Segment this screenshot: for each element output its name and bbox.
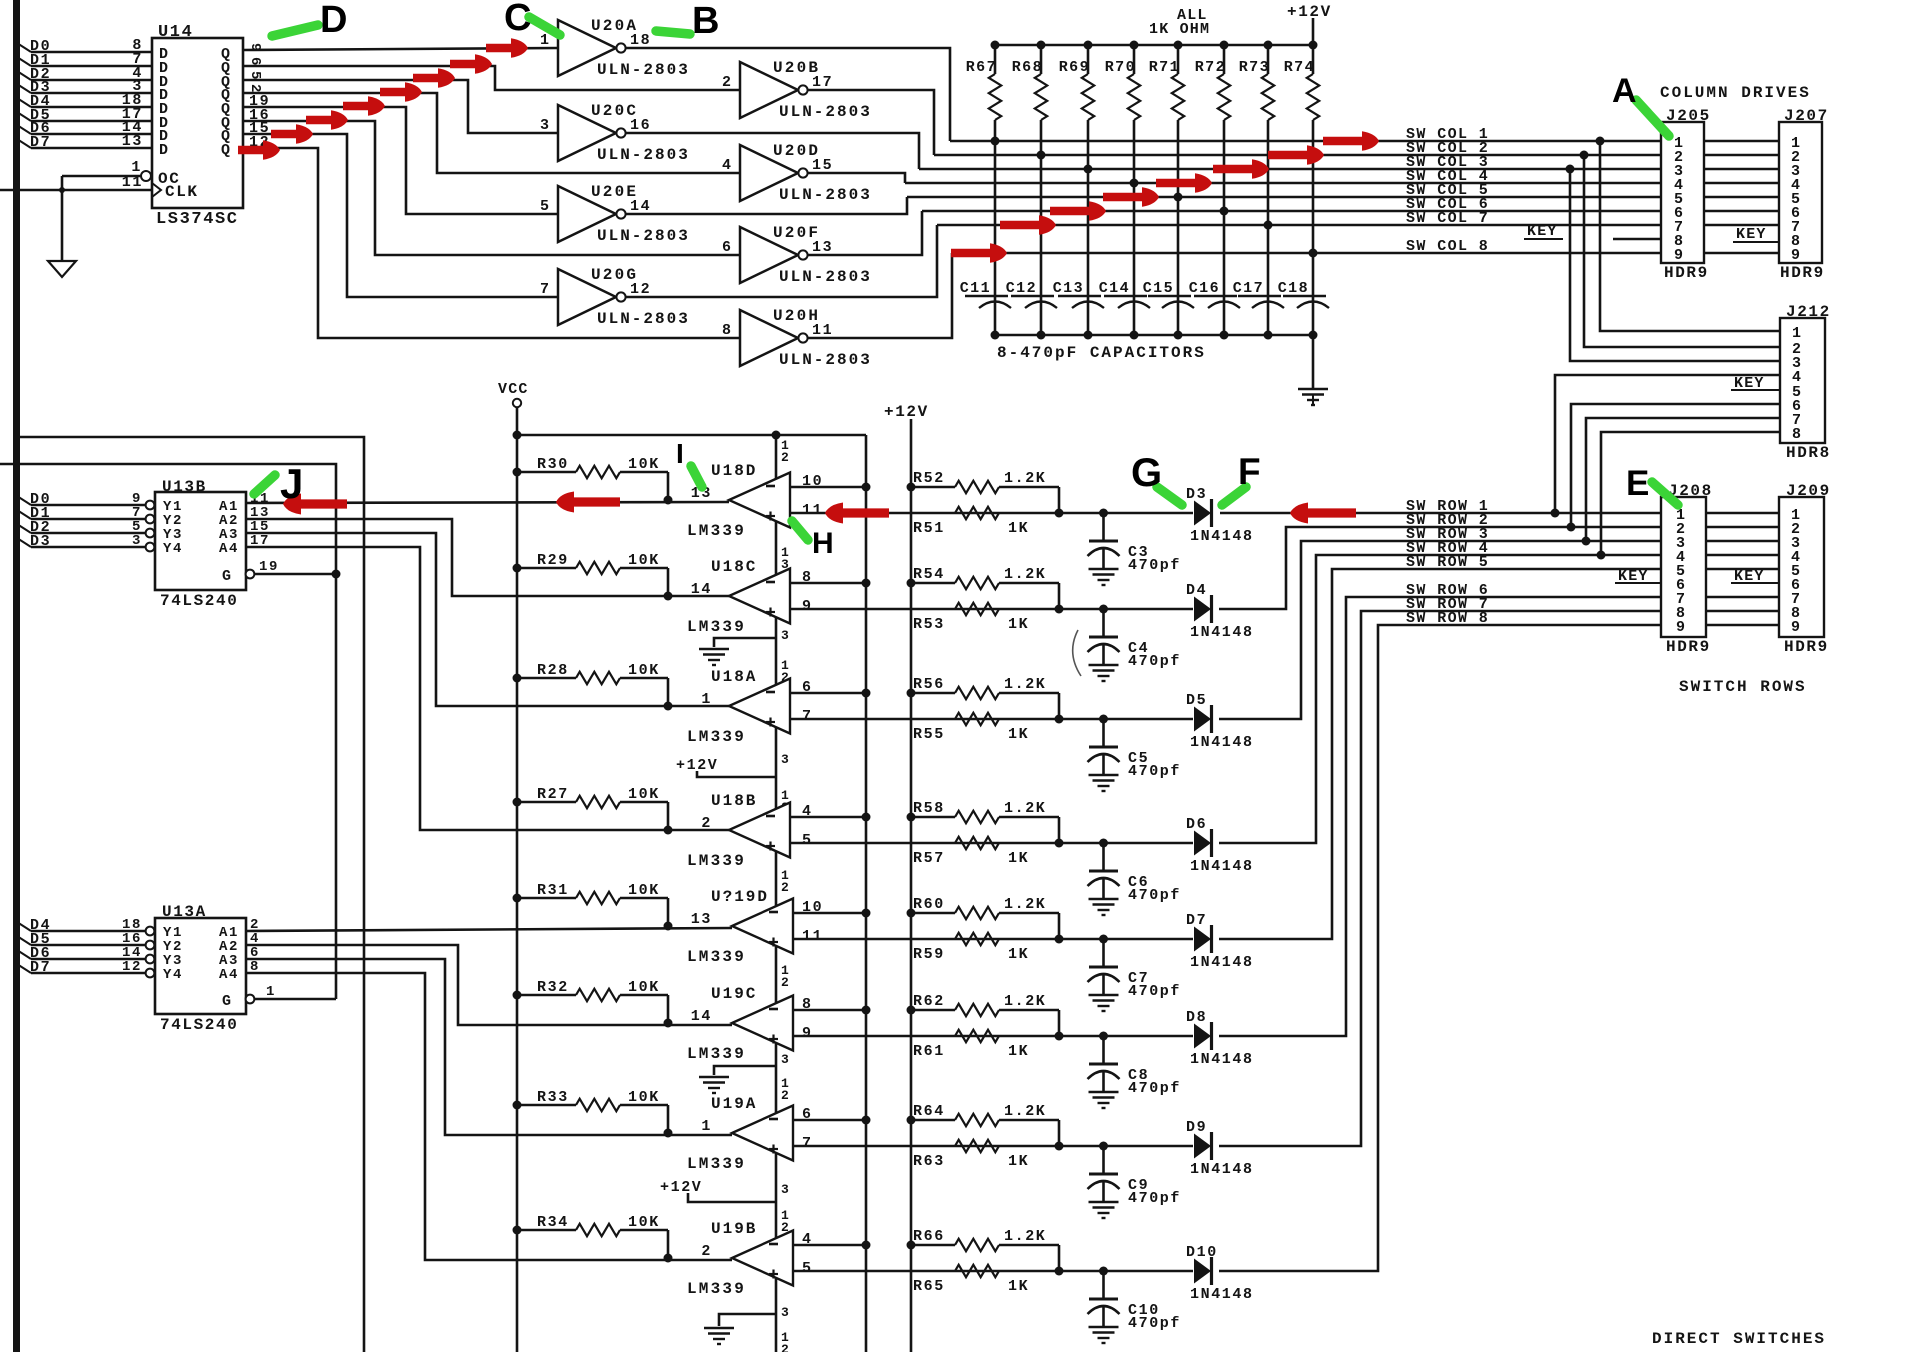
wire SW ROW 7 line with riser (1219, 611, 1661, 1146)
wire U14 Q7 to U20H input (243, 148, 740, 338)
svg-text:5: 5 (802, 1260, 813, 1277)
svg-text:U18C: U18C (711, 558, 757, 576)
svg-text:8: 8 (1792, 426, 1803, 443)
U19C minus sign (769, 1008, 778, 1011)
svg-text:470pf: 470pf (1128, 763, 1181, 780)
U18B plus sign (766, 845, 775, 847)
svg-text:D3: D3 (30, 533, 51, 550)
buffer U20B (ULN-2803) (740, 62, 798, 118)
svg-text:R61: R61 (913, 1043, 945, 1060)
svg-text:1.2K: 1.2K (1004, 470, 1046, 487)
resistor R62 (1.2K) (911, 1009, 955, 1012)
ground rail (capacitor commons) (995, 334, 1313, 337)
wire J208 pin 2 to J209 pin 2 (1706, 526, 1779, 529)
svg-text:2: 2 (701, 815, 712, 832)
junction C17 to ground rail (1264, 331, 1273, 340)
svg-text:1: 1 (1792, 325, 1803, 342)
U13A Y1 bubble (146, 927, 155, 936)
U13B Y4 bubble (146, 543, 155, 552)
wire bus entry D7 to U13A (17, 964, 31, 973)
ground below U14 (open triangle) (48, 261, 76, 277)
svg-text:D10: D10 (1186, 1244, 1218, 1261)
ground C8 (1089, 1091, 1119, 1093)
wire U20D output to SW COL 4 (808, 173, 905, 183)
svg-text:6: 6 (722, 239, 733, 256)
diode D5 (1N4148) (1194, 707, 1211, 732)
diode D3 (1N4148) (1194, 501, 1211, 526)
svg-text:U19B: U19B (711, 1220, 757, 1238)
svg-text:ULN-2803: ULN-2803 (597, 146, 690, 164)
svg-text:+12V: +12V (884, 403, 929, 421)
junction C11 to ground rail (991, 331, 1000, 340)
svg-text:3: 3 (781, 1305, 789, 1320)
ground C9 (1089, 1201, 1119, 1203)
annotation green marker C (529, 17, 560, 35)
svg-text:470pf: 470pf (1128, 1190, 1181, 1207)
ground symbol (matrix) (1298, 388, 1328, 390)
wire U13A A1 to U19D output (246, 928, 732, 931)
annotation red arrow on Q2 wire (413, 68, 455, 88)
wire SW ROW 6 line with riser (1219, 597, 1661, 1036)
wire U20H output to SW COL 8 (808, 253, 952, 338)
svg-text:C13: C13 (1053, 280, 1084, 297)
svg-text:B: B (692, 0, 721, 42)
svg-text:R66: R66 (913, 1228, 945, 1245)
wire J208 pin 3 to J209 pin 3 (1706, 540, 1779, 543)
wire U13B A3 to U18A output (246, 533, 729, 706)
svg-text:9: 9 (247, 43, 263, 53)
wire OC to ground (62, 175, 141, 178)
capacitor C5 (470pf) (1099, 715, 1108, 724)
svg-text:R30: R30 (537, 456, 569, 473)
svg-text:ULN-2803: ULN-2803 (779, 268, 872, 286)
U20D output bubble (798, 168, 807, 177)
U18A minus sign (766, 691, 775, 694)
svg-text:4: 4 (722, 157, 733, 174)
wire U13B A1 to U18D output (246, 502, 729, 503)
U18C minus sign (766, 581, 775, 584)
ground tap (U18 group) (714, 638, 776, 647)
wire U20A output to SW COL 1 (626, 48, 950, 141)
annotation red arrow on SW COL 2 wire (1268, 145, 1324, 165)
svg-text:3: 3 (781, 752, 789, 767)
svg-text:LM339: LM339 (687, 522, 746, 540)
ground C3 (1089, 568, 1119, 570)
resistor R64 (1.2K) (911, 1119, 955, 1122)
wire SW COL 8 line (952, 252, 1661, 255)
svg-text:ULN-2803: ULN-2803 (779, 351, 872, 369)
wire bus entry D4 to U13A (17, 922, 31, 931)
svg-text:470pf: 470pf (1128, 1080, 1181, 1097)
svg-text:470pf: 470pf (1128, 887, 1181, 904)
resistor R69 (1K pull-up) (1087, 45, 1090, 74)
wire U19B inverting input to minus bus (793, 1244, 866, 1247)
svg-text:U19C: U19C (711, 985, 757, 1003)
svg-text:LM339: LM339 (687, 618, 746, 636)
resistor R68 (1K pull-up) (1040, 45, 1043, 74)
wire U18A non-inverting input (row 3) (790, 718, 1193, 721)
svg-text:R64: R64 (913, 1103, 945, 1120)
svg-text:Y4: Y4 (163, 541, 183, 557)
wire J205 pin 9 to J207 pin 9 (1704, 252, 1779, 255)
resistor R59 (1K) (955, 933, 999, 945)
svg-text:10K: 10K (628, 882, 660, 899)
annotation red arrow on Q4 wire (343, 96, 385, 116)
svg-text:8-470pF CAPACITORS: 8-470pF CAPACITORS (997, 344, 1206, 362)
svg-text:11: 11 (802, 928, 823, 945)
svg-text:9: 9 (802, 1025, 813, 1042)
svg-text:R72: R72 (1195, 59, 1226, 76)
svg-text:J: J (280, 460, 305, 507)
svg-text:2: 2 (781, 1342, 789, 1352)
diode D8 (1N4148) (1194, 1024, 1211, 1049)
U18C plus sign (766, 611, 775, 613)
annotation red arrow at U18D plus input (825, 503, 889, 524)
svg-text:C11: C11 (960, 280, 991, 297)
svg-text:11: 11 (802, 502, 823, 519)
svg-text:C15: C15 (1143, 280, 1174, 297)
wire U20E output to SW COL 5 (626, 197, 907, 214)
svg-text:G: G (222, 993, 233, 1010)
wire J205 pin 5 to J207 pin 5 (1704, 196, 1779, 199)
wire bus entry D5 to U13A (17, 936, 31, 945)
ground C6 (1089, 898, 1119, 900)
diode D10 (1N4148) (1194, 1259, 1211, 1284)
annotation green marker G (1157, 487, 1182, 505)
junction R72 to SW COL 6 (1220, 207, 1229, 216)
svg-text:9: 9 (1791, 619, 1802, 636)
svg-text:7: 7 (802, 1135, 813, 1152)
wire SW COL 3 line (919, 168, 1661, 171)
svg-text:9: 9 (1674, 247, 1685, 264)
wire J212 pin6 to SW ROW 2 (1571, 404, 1780, 527)
comparator U19D (LM339) (732, 899, 793, 954)
U13B Y2 bubble (146, 515, 155, 524)
svg-text:LM339: LM339 (687, 728, 746, 746)
resistor R74 (1K pull-up) (1312, 45, 1315, 74)
svg-text:R73: R73 (1239, 59, 1270, 76)
connector J207 body (1779, 122, 1822, 263)
ground tap (below U19B) (719, 1314, 776, 1326)
svg-text:G: G (1131, 451, 1164, 495)
annotation red arrow at U18D output (556, 492, 620, 513)
svg-text:9: 9 (1676, 619, 1687, 636)
svg-text:D3: D3 (1186, 486, 1207, 503)
annotation red arrow on SW COL 5 wire (1103, 187, 1159, 207)
svg-text:9: 9 (802, 598, 813, 615)
resistor R71 (1K pull-up) (1177, 45, 1180, 74)
annotation red arrow on SW COL 4 wire (1156, 173, 1212, 193)
wire J208 pin 1 to J209 pin 1 (1706, 512, 1779, 515)
resistor R51 (1K) (955, 507, 999, 519)
junction R74 to SW COL 8 (1309, 249, 1318, 258)
buffer U20C (ULN-2803) (558, 105, 616, 161)
svg-text:1K: 1K (1008, 1043, 1029, 1060)
resistor R63 (1K) (955, 1140, 999, 1152)
junction R68 to SW COL 2 (1037, 151, 1046, 160)
svg-text:R59: R59 (913, 946, 945, 963)
svg-text:COLUMN DRIVES: COLUMN DRIVES (1660, 84, 1811, 102)
wire J208 pin 8 to J209 pin 8 (1706, 610, 1779, 613)
svg-text:C16: C16 (1189, 280, 1220, 297)
annotation red arrow on U13B A1 wire (283, 494, 347, 515)
svg-text:R33: R33 (537, 1089, 569, 1106)
LM339 power rail (775, 435, 778, 1352)
U18D plus sign (766, 515, 775, 517)
svg-text:R65: R65 (913, 1278, 945, 1295)
wire U19D inverting input to minus bus (793, 912, 866, 915)
svg-text:U?19D: U?19D (711, 888, 769, 906)
svg-text:17: 17 (812, 74, 833, 91)
resistor R34 (10K) (517, 1229, 576, 1232)
svg-text:1.2K: 1.2K (1004, 566, 1046, 583)
wire J205 pin 2 to J207 pin 2 (1704, 154, 1779, 157)
svg-text:LM339: LM339 (687, 852, 746, 870)
svg-text:10K: 10K (628, 456, 660, 473)
junction R71 to SW COL 5 (1174, 193, 1183, 202)
svg-text:2: 2 (781, 1088, 789, 1103)
svg-text:1: 1 (701, 1118, 712, 1135)
wire +12V stub (1312, 18, 1315, 45)
svg-text:1.2K: 1.2K (1004, 1228, 1046, 1245)
svg-text:U18A: U18A (711, 668, 757, 686)
U13B G bubble (246, 570, 255, 579)
svg-text:R69: R69 (1059, 59, 1090, 76)
wire U19A inverting input to minus bus (793, 1119, 866, 1122)
svg-text:10K: 10K (628, 662, 660, 679)
wire U13B A2 to U18C output (246, 519, 729, 596)
wire SW ROW 2 line with riser (1219, 527, 1661, 609)
svg-text:12: 12 (630, 281, 651, 298)
junction C13 to ground rail (1084, 331, 1093, 340)
resistor R33 (10K) (517, 1104, 576, 1107)
svg-text:15: 15 (812, 157, 833, 174)
resistor R53 (1K) (955, 603, 999, 615)
diode D4 (1N4148) (1194, 597, 1211, 622)
resistor R54 (1.2K) (911, 582, 955, 585)
svg-text:HDR9: HDR9 (1666, 638, 1711, 656)
annotation red arrow on SW ROW 1 (1290, 503, 1356, 524)
junction C12 to ground rail (1037, 331, 1046, 340)
resistor R30 (10K) (517, 471, 576, 474)
svg-text:ULN-2803: ULN-2803 (597, 310, 690, 328)
wire U14 Q0 to U20A input (243, 48, 558, 50)
buffer U20G (ULN-2803) (558, 269, 616, 325)
annotation red arrow on Q3 wire (380, 82, 422, 102)
svg-text:A: A (1612, 72, 1638, 110)
wire U14 Q5 to U20F input (243, 121, 740, 255)
wire U18D inverting input to minus bus (790, 486, 866, 489)
wire SW COL 6 line (922, 210, 1661, 213)
annotation green marker H (792, 521, 808, 540)
junction SW COL 3 tap (1566, 165, 1575, 174)
svg-text:D: D (320, 0, 349, 41)
svg-text:SW COL 7: SW COL 7 (1406, 210, 1489, 227)
annotation green marker I (691, 466, 702, 487)
annotation red arrow on SW COL 3 wire (1213, 159, 1269, 179)
svg-text:A4: A4 (219, 967, 239, 983)
wire J212 pin8 to SW ROW 4 (1601, 432, 1780, 555)
wire bus entry D1 to U14 (17, 57, 31, 66)
svg-text:SWITCH ROWS: SWITCH ROWS (1679, 678, 1807, 696)
wire VCC to comparator minus bus (517, 434, 866, 437)
wire bus entry D6 to U14 (17, 125, 31, 134)
svg-text:D7: D7 (1186, 912, 1207, 929)
svg-text:DIRECT SWITCHES: DIRECT SWITCHES (1652, 1330, 1826, 1348)
comparator U18B (LM339) (729, 803, 790, 858)
svg-text:C18: C18 (1278, 280, 1309, 297)
svg-text:470pf: 470pf (1128, 653, 1181, 670)
annotation red arrow on Q5 wire (306, 110, 348, 130)
svg-text:R70: R70 (1105, 59, 1136, 76)
svg-text:R34: R34 (537, 1214, 569, 1231)
svg-text:C14: C14 (1099, 280, 1130, 297)
svg-text:C12: C12 (1006, 280, 1037, 297)
svg-text:R51: R51 (913, 520, 945, 537)
svg-text:1K: 1K (1008, 726, 1029, 743)
wire J212 pin7 to SW ROW 3 (1586, 418, 1780, 541)
svg-text:D6: D6 (1186, 816, 1207, 833)
svg-text:1N4148: 1N4148 (1190, 858, 1254, 875)
annotation green marker J (254, 475, 275, 494)
wire U18B inverting input to minus bus (790, 816, 866, 819)
pin 12 LM339 power (stacked) (781, 868, 789, 895)
svg-text:5: 5 (540, 198, 551, 215)
svg-text:R58: R58 (913, 800, 945, 817)
svg-text:ULN-2803: ULN-2803 (779, 186, 872, 204)
buffer U20H (ULN-2803) (740, 310, 798, 366)
pin 3 LM339 power (stacked) (781, 1305, 789, 1320)
wire SW COL 1 line (950, 140, 1661, 143)
wire U20B output to SW COL 2 (808, 90, 934, 155)
svg-text:HDR9: HDR9 (1664, 264, 1709, 282)
annotation green marker F (1222, 487, 1246, 505)
connector J209 body (1779, 497, 1824, 637)
resistor R29 (10K) (517, 567, 576, 570)
wire bus entry D6 to U13A (17, 950, 31, 959)
wire U13A A3 to U19A output (246, 959, 732, 1135)
resistor R60 (1.2K) (911, 912, 955, 915)
svg-text:14: 14 (691, 581, 712, 598)
svg-text:13: 13 (122, 133, 143, 150)
wire bus entry D0 to U13B (17, 496, 31, 505)
resistor R61 (1K) (955, 1030, 999, 1042)
capacitor C16 (470pF) (1194, 295, 1237, 297)
svg-text:19: 19 (259, 559, 279, 575)
wire J208 pin 9 to J209 pin 9 (1706, 624, 1779, 627)
annotation green marker E (1652, 482, 1678, 505)
svg-text:470pf: 470pf (1128, 1315, 1181, 1332)
U19B plus sign (769, 1273, 778, 1275)
annotation red arrow on SW COL 7 wire (1000, 215, 1056, 235)
svg-text:+12V: +12V (660, 1179, 702, 1196)
ground C10 (1089, 1326, 1119, 1328)
U20H output bubble (798, 333, 807, 342)
pin 12 LM339 power (stacked) (781, 963, 789, 990)
svg-text:U18D: U18D (711, 462, 757, 480)
pin 13 LM339 power (stacked) (781, 545, 789, 572)
annotation red arrow on Q1 wire (450, 54, 492, 74)
svg-text:R63: R63 (913, 1153, 945, 1170)
capacitor C9 (470pf) (1099, 1142, 1108, 1151)
junction SW COL 1 tap (1596, 137, 1605, 146)
svg-text:1: 1 (266, 984, 276, 1000)
svg-text:74LS240: 74LS240 (160, 1016, 238, 1034)
wire SW COL 2 to J212 pin2 (1584, 155, 1780, 347)
junction C15 to ground rail (1174, 331, 1183, 340)
svg-text:R31: R31 (537, 882, 569, 899)
U20G output bubble (616, 292, 625, 301)
svg-text:1: 1 (540, 32, 551, 49)
annotation red arrow on Q7 wire (238, 140, 280, 160)
annotation green marker A (1636, 100, 1669, 136)
junction OC/CLK cross (59, 187, 65, 193)
svg-text:R57: R57 (913, 850, 945, 867)
U13A Y2 bubble (146, 941, 155, 950)
pin 3 LM339 power (stacked) (781, 628, 789, 643)
wire U14 Q2 to U20C input (243, 80, 558, 133)
svg-text:2: 2 (781, 975, 789, 990)
svg-text:1.2K: 1.2K (1004, 1103, 1046, 1120)
wire SW COL 3 to J212 pin3 (1570, 169, 1780, 361)
wire SW COL 7 line (937, 224, 1661, 227)
svg-text:1K: 1K (1008, 850, 1029, 867)
svg-text:G: G (222, 568, 233, 585)
wire SW COL 2 line (934, 154, 1661, 157)
svg-text:1K: 1K (1008, 1278, 1029, 1295)
svg-text:8: 8 (722, 322, 733, 339)
wire ground rail drop (1312, 335, 1315, 388)
svg-text:C17: C17 (1233, 280, 1264, 297)
svg-text:R62: R62 (913, 993, 945, 1010)
U19B minus sign (769, 1243, 778, 1246)
svg-text:1K: 1K (1008, 946, 1029, 963)
svg-text:D7: D7 (30, 959, 51, 976)
wire U20C output to SW COL 3 (626, 133, 919, 169)
svg-text:2: 2 (781, 880, 789, 895)
capacitor C17 (470pF) (1238, 295, 1281, 297)
capacitor C6 (470pf) (1099, 839, 1108, 848)
pin 3 LM339 power (stacked) (781, 752, 789, 767)
svg-text:1N4148: 1N4148 (1190, 624, 1254, 641)
pin 12 LM339 power (stacked) (781, 1330, 789, 1357)
U13A G bubble (246, 995, 255, 1004)
svg-text:E: E (1626, 464, 1651, 503)
svg-text:R32: R32 (537, 979, 569, 996)
wire SW ROW 5 line with riser (1219, 569, 1661, 939)
svg-text:LM339: LM339 (687, 948, 746, 966)
ground C7 (1089, 994, 1119, 996)
svg-text:16: 16 (630, 117, 651, 134)
wire J205 pin 3 to J207 pin 3 (1704, 168, 1779, 171)
enable wire from bus (upper) (20, 437, 364, 1352)
svg-text:I: I (676, 438, 685, 469)
svg-text:R71: R71 (1149, 59, 1180, 76)
svg-text:KEY: KEY (1736, 226, 1767, 243)
svg-text:HDR9: HDR9 (1784, 638, 1829, 656)
wire bus entry D1 to U13B (17, 510, 31, 519)
svg-text:1K: 1K (1008, 520, 1029, 537)
U20A output bubble (616, 43, 625, 52)
connector J205 body (1661, 122, 1704, 263)
junction R73 to SW COL 7 (1264, 221, 1273, 230)
svg-text:3: 3 (781, 1052, 789, 1067)
svg-text:7: 7 (540, 281, 551, 298)
U18A plus sign (766, 721, 775, 723)
wire U18C inverting input to minus bus (790, 582, 866, 585)
junction C18 to ground rail (1309, 331, 1318, 340)
svg-text:J207: J207 (1784, 107, 1829, 125)
